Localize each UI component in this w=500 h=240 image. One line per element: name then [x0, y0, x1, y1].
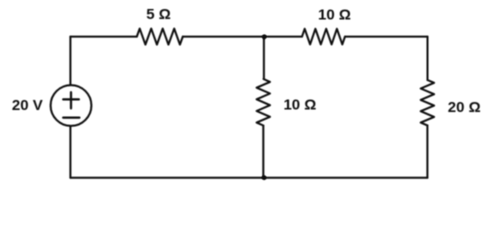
- voltage source minus sign: [63, 116, 79, 118]
- resistor R2 10 ohm (horizontal zigzag): [302, 29, 345, 45]
- wire bottom rail: [70, 177, 427, 179]
- wire left branch bottom stub: [69, 126, 71, 178]
- resistor R1 5 ohm (horizontal zigzag): [137, 29, 183, 45]
- svg-text:5 Ω: 5 Ω: [146, 6, 171, 23]
- svg-text:10 Ω: 10 Ω: [283, 97, 316, 114]
- wire top rail middle segment: [183, 36, 302, 38]
- wire right branch top stub: [427, 37, 429, 80]
- wire top rail left segment: [70, 36, 136, 38]
- svg-text:10 Ω: 10 Ω: [318, 7, 351, 24]
- wire left branch top stub: [69, 37, 71, 85]
- svg-text:20 Ω: 20 Ω: [448, 99, 481, 116]
- node junction dot top (middle node): [262, 34, 267, 39]
- resistor R4 20 ohm (vertical zigzag): [421, 80, 434, 125]
- voltage source plus sign: [63, 92, 79, 108]
- wire middle branch top stub: [263, 37, 265, 79]
- wire middle branch bottom stub: [262, 126, 264, 178]
- wire top rail right segment: [345, 36, 428, 38]
- svg-text:20 V: 20 V: [12, 97, 43, 114]
- node junction dot bottom (middle node): [262, 175, 267, 180]
- wire right branch bottom stub: [426, 125, 428, 177]
- resistor R3 10 ohm (vertical zigzag): [257, 79, 270, 126]
- voltage source VS1 circle: [51, 85, 92, 126]
